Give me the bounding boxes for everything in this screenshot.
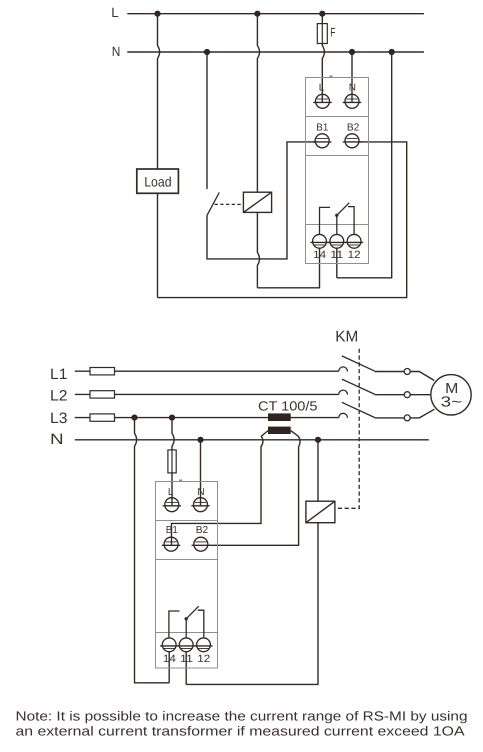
svg-text:B1: B1	[166, 525, 178, 536]
KM pole 1 contact	[339, 356, 410, 375]
terminal N (top device)	[343, 94, 361, 108]
device RS-MI box (top)	[306, 76, 369, 263]
wire L to fuse F	[321, 14, 323, 24]
svg-text:B2: B2	[196, 525, 209, 536]
wire N to coil (bottom)	[317, 440, 319, 501]
wire fuse to L terminal (hop over N)	[322, 44, 324, 103]
terminal 12 (top device)	[345, 234, 363, 248]
wire coil bottom to 11	[186, 523, 318, 685]
node dot N-to-Nterm	[349, 49, 355, 55]
svg-text:11: 11	[330, 249, 343, 261]
svg-text:B2: B2	[347, 122, 360, 133]
svg-text:Note: It is possible to increa: Note: It is possible to increase the cur…	[16, 709, 468, 724]
svg-text:N: N	[197, 487, 204, 498]
node dot L-to-fuse	[319, 11, 325, 17]
svg-text:12: 12	[348, 249, 361, 261]
terminal 12 (bottom device)	[194, 638, 212, 652]
CT primary bar	[268, 413, 291, 421]
fuse L1	[90, 368, 115, 375]
node dot L3-to-14	[131, 415, 137, 421]
terminal 11 (top device)	[328, 234, 346, 248]
wire N to N terminal (bottom device)	[200, 440, 202, 506]
wire B2 to right rail to bottom rail	[158, 142, 407, 298]
svg-text:N: N	[112, 44, 121, 59]
motor M 3~	[431, 375, 471, 415]
svg-text:L: L	[168, 487, 174, 498]
svg-text:KM: KM	[335, 328, 358, 345]
wire N line (bottom)	[75, 439, 429, 441]
dashed mechanical link switch-coil	[215, 203, 244, 205]
svg-text:L1: L1	[50, 366, 67, 383]
wire CT secondary left lead to B1 (hop over N)	[172, 431, 269, 545]
node dot N-to-switch	[204, 49, 210, 55]
switch lever (KM auxiliary contact)	[207, 192, 219, 215]
svg-text:14: 14	[313, 249, 326, 261]
node dot N-to-Nterm (bottom)	[197, 437, 203, 443]
node dot L-to-Load	[154, 11, 160, 17]
svg-text:14: 14	[163, 653, 176, 665]
wire L2 line	[75, 393, 339, 395]
dashed link KM contacts to coil	[335, 349, 359, 509]
terminal 14 (bottom device)	[160, 638, 178, 652]
wire L to coil (hop over N)	[257, 14, 259, 192]
terminal B2 (top device)	[343, 134, 361, 148]
fuse (bottom, vertical)	[168, 450, 176, 473]
CT secondary bar	[268, 427, 291, 434]
svg-text:an external current transforme: an external current transformer if measu…	[16, 724, 465, 739]
svg-text:Load: Load	[144, 174, 171, 189]
svg-text:F: F	[330, 26, 335, 40]
wire 11 down (bottom device)	[185, 652, 187, 685]
terminal B2 (bottom device)	[192, 537, 210, 551]
wire pole1 to motor	[410, 372, 434, 381]
wire N to terminal 11	[337, 52, 392, 278]
svg-text:11: 11	[180, 653, 193, 665]
node dot L3-to-fuse	[169, 415, 175, 421]
node dot L-to-coil	[254, 11, 260, 17]
fuse L3	[90, 414, 115, 421]
wire switch bottom to B1	[207, 142, 315, 259]
wire L3 to fuse (hop over N)	[172, 418, 174, 450]
svg-text:L2: L2	[50, 388, 67, 405]
terminal 11 (bottom device)	[177, 638, 195, 652]
terminal B1 (bottom device)	[162, 537, 180, 551]
svg-text:B1: B1	[316, 122, 328, 133]
svg-text:3~: 3~	[441, 395, 463, 411]
terminal N (bottom device)	[191, 498, 209, 512]
wire 11 down	[336, 248, 338, 277]
wire 14 down (bottom device)	[168, 652, 170, 683]
wire L1 line	[75, 370, 339, 372]
terminal L (bottom device)	[163, 498, 181, 512]
wire 14 to coil link	[257, 248, 319, 287]
wire N to switch KM contact	[206, 52, 208, 189]
wire pole3 to motor	[410, 409, 434, 418]
wire Load bottom to B2 return (bottom rail y=297.6)	[157, 193, 159, 297]
relay coil KM (bottom, box with diagonal)	[306, 501, 335, 523]
svg-text:CT 100/5: CT 100/5	[258, 399, 318, 414]
wire pole2 to motor	[410, 394, 431, 396]
wire N to N terminal	[351, 52, 353, 102]
node dot N-to-coil (bottom)	[315, 437, 321, 443]
relay contact symbol (bottom device)	[169, 606, 204, 638]
svg-text:12: 12	[197, 653, 210, 665]
Load box	[137, 169, 179, 193]
svg-text:L: L	[319, 82, 325, 93]
svg-text:N: N	[349, 82, 356, 93]
node dot N-to-11	[389, 49, 395, 55]
relay coil K (top, box with diagonal)	[243, 192, 271, 212]
wire fuse to L terminal (bottom device)	[171, 473, 173, 506]
device RS-MI box (bottom)	[156, 480, 218, 668]
wire L3 to 14 (left drop, hop over N)	[135, 418, 170, 683]
fuse F (top)	[317, 24, 327, 44]
wire CT secondary right lead to B2 (hop over N)	[208, 431, 300, 546]
KM pole 3 contact	[339, 402, 410, 421]
relay contact symbol (top device)	[320, 203, 355, 235]
KM pole 2 contact	[339, 379, 410, 398]
svg-text:L: L	[111, 5, 119, 20]
terminal L (top device)	[313, 94, 331, 108]
wire L line	[127, 13, 424, 15]
svg-text:L3: L3	[50, 410, 67, 427]
wire coil bottom to 14 link (hop over switch rail)	[257, 212, 259, 287]
terminal B1 (top device)	[313, 134, 331, 148]
wire L to Load (hop over N)	[158, 14, 160, 169]
wire N line	[127, 51, 424, 53]
svg-text:N: N	[50, 431, 64, 448]
fuse L2	[90, 391, 115, 398]
terminal 14 (top device)	[310, 234, 328, 248]
wire L3 line	[75, 417, 339, 419]
